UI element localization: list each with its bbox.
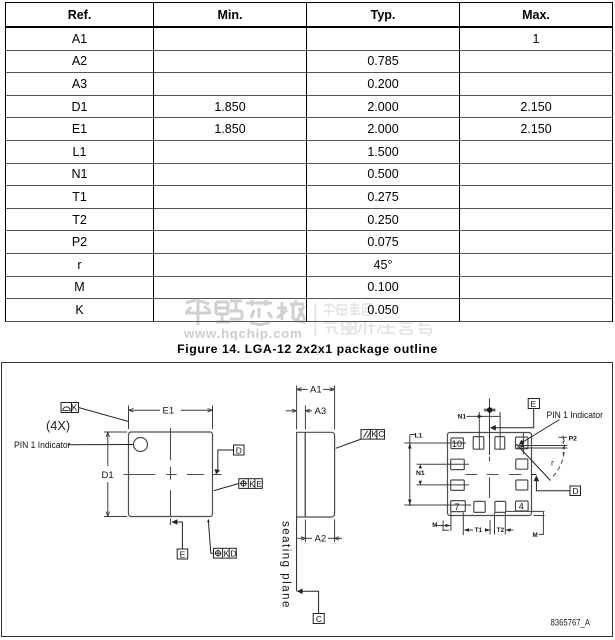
svg-text:PIN 1 Indicator: PIN 1 Indicator <box>547 410 604 420</box>
svg-text:M: M <box>533 532 538 539</box>
svg-text:D: D <box>230 549 236 559</box>
svg-text:E: E <box>256 479 262 489</box>
svg-text:E: E <box>180 549 186 559</box>
svg-text:C: C <box>378 429 384 439</box>
svg-text:C: C <box>316 614 322 624</box>
svg-text:seating plane: seating plane <box>280 521 292 609</box>
svg-text:T1: T1 <box>475 527 483 534</box>
svg-text:T2: T2 <box>497 527 505 534</box>
svg-text:A1: A1 <box>310 385 322 396</box>
svg-text:K: K <box>249 479 255 489</box>
svg-text:10: 10 <box>452 439 462 449</box>
svg-text:E: E <box>531 399 537 409</box>
svg-text:r: r <box>551 458 554 468</box>
svg-text:A3: A3 <box>315 406 327 417</box>
svg-text:D1: D1 <box>102 470 114 481</box>
svg-text:N1: N1 <box>416 470 425 477</box>
svg-text:1: 1 <box>520 439 525 449</box>
svg-text:E1: E1 <box>163 405 175 416</box>
svg-text:(4X): (4X) <box>46 418 70 433</box>
svg-text:A2: A2 <box>315 534 327 545</box>
svg-text:K: K <box>372 429 378 439</box>
svg-text:D: D <box>573 486 579 496</box>
svg-text:4: 4 <box>519 501 524 511</box>
svg-text:L1: L1 <box>415 432 423 439</box>
svg-text:K: K <box>224 549 230 559</box>
svg-text:D: D <box>236 445 242 455</box>
svg-text:K: K <box>72 403 78 413</box>
svg-text:P2: P2 <box>569 436 578 443</box>
svg-text:7: 7 <box>455 502 460 512</box>
svg-text:M: M <box>432 522 437 529</box>
svg-text:8365767_A: 8365767_A <box>551 618 591 628</box>
svg-text:PIN 1 Indicator: PIN 1 Indicator <box>14 440 71 450</box>
svg-text:N1: N1 <box>458 414 467 421</box>
svg-text:www.hqchip.com: www.hqchip.com <box>183 326 302 341</box>
